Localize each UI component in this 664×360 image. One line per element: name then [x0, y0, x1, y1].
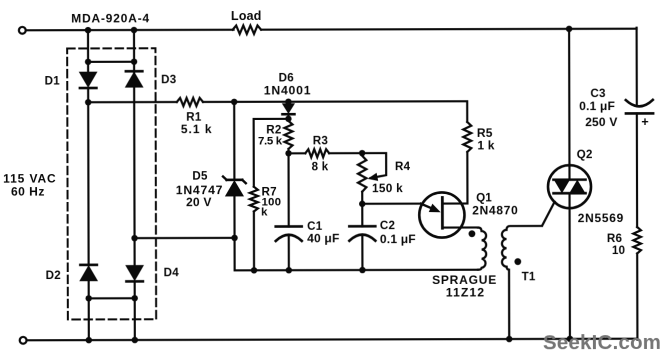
wire (D5 node to D6 node) — [234, 101, 288, 103]
svg-text:Q2: Q2 — [577, 148, 593, 161]
node (AC bus top right) — [131, 59, 137, 65]
label 115 VAC 60 Hz — [3, 172, 57, 199]
svg-text:11Z12: 11Z12 — [446, 285, 485, 299]
wire (Q1 base1 to T1 primary) — [442, 226, 477, 228]
node (AC bus bottom right) — [132, 295, 138, 301]
resistor R6 — [607, 227, 641, 257]
wire (emitter wire: R4 node to Q1) — [362, 203, 421, 205]
svg-text:0.1 μF: 0.1 μF — [380, 232, 416, 246]
wire (top rail corner down to C3) — [636, 28, 638, 105]
svg-text:150 k: 150 k — [372, 181, 403, 195]
svg-text:Load: Load — [231, 9, 262, 23]
capacitor C1 — [276, 220, 340, 246]
svg-text:0.1 μF: 0.1 μF — [579, 99, 615, 113]
svg-text:R3: R3 — [313, 135, 329, 148]
watermark SeekIC.com — [543, 331, 661, 354]
svg-text:D2: D2 — [46, 269, 61, 282]
resistor R1 — [177, 98, 213, 136]
wire (R7 bottom to lower rail) — [253, 212, 255, 271]
node (D5 / DC- junction) — [231, 235, 237, 241]
node (C2 / lower rail) — [359, 267, 365, 273]
svg-text:D3: D3 — [161, 73, 177, 86]
svg-text:250 V: 250 V — [585, 115, 617, 129]
label MDA-920A-4 — [71, 11, 150, 25]
resistor R7 — [250, 186, 281, 219]
svg-text:C3: C3 — [590, 87, 606, 100]
svg-text:2N5569: 2N5569 — [578, 211, 624, 225]
wire (D2 anode to bottom rail) — [88, 280, 90, 340]
node (bottom rail / bridge col 2) — [132, 337, 138, 343]
node (top rail / bridge col 1) — [85, 27, 91, 33]
wire (top rail left segment) — [26, 29, 234, 32]
wire (top rail right segment) — [261, 28, 636, 31]
svg-text:115 VAC: 115 VAC — [3, 172, 56, 186]
terminal (AC line, bottom left) — [20, 337, 27, 344]
svg-text:60 Hz: 60 Hz — [11, 185, 45, 199]
node (DC+ junction at bridge) — [85, 99, 91, 105]
svg-text:1N4001: 1N4001 — [264, 83, 312, 97]
wire (D6 cathode stub) — [287, 115, 289, 119]
wire (emitter node down to C2) — [361, 204, 363, 226]
wire (DC+ rail: bridge to R1) — [88, 101, 177, 103]
node (R7 / lower rail) — [251, 267, 257, 273]
node (DC- junction at bridge) — [131, 235, 137, 241]
wire (DC+ node down to D5) — [233, 102, 235, 180]
triac Q2 (2N5569) — [548, 148, 624, 339]
diode D6 — [264, 71, 312, 114]
potentiometer R4 (rheostat) — [358, 153, 411, 195]
wire (junction down to C1) — [287, 153, 289, 226]
wire (R3 to R4 node) — [329, 152, 362, 154]
node (AC bus top left) — [85, 59, 91, 65]
svg-text:k: k — [261, 206, 268, 218]
wire (C3 to R6) — [636, 113, 638, 227]
wire (bridge column 1: DC+ to D2) — [87, 102, 90, 265]
svg-text:R4: R4 — [395, 160, 411, 173]
wire (top rail down to Q2) — [568, 29, 571, 166]
transformer T1 primary winding — [478, 227, 486, 269]
wire (R5 to Q1 base2) — [442, 152, 467, 204]
wire (R4 bottom stub) — [361, 192, 363, 204]
wire (Q2 gate lead) — [542, 202, 554, 226]
zener diode D5 — [176, 170, 246, 209]
wire (DC- rail: bridge to D5) — [135, 237, 235, 239]
svg-text:C2: C2 — [380, 219, 395, 232]
svg-text:MDA-920A-4: MDA-920A-4 — [71, 11, 150, 25]
svg-text:2N4870: 2N4870 — [472, 203, 518, 217]
svg-text:T1: T1 — [522, 270, 536, 283]
node (R4 / C2 / emitter junction) — [359, 201, 365, 207]
wire (C2 to lower rail) — [361, 236, 363, 270]
svg-text:8 k: 8 k — [312, 161, 329, 174]
resistor Load — [231, 9, 262, 34]
resistor R5 — [463, 122, 495, 152]
terminal (AC line, top left) — [19, 27, 26, 34]
node (D6 cathode / R2 / R7 junction) — [285, 116, 291, 122]
svg-text:D1: D1 — [45, 74, 61, 87]
wire (D1 cathode to DC+ node) — [87, 89, 89, 102]
wire (R2 bottom stub) — [287, 149, 289, 153]
wire (R6 to bottom rail corner) — [636, 254, 638, 340]
wire (D5 node down to lower rail) — [235, 237, 478, 270]
wire (C1 to lower rail) — [288, 236, 290, 270]
wire (R1 to D5 node) — [203, 101, 234, 103]
svg-text:+: + — [641, 115, 649, 129]
wire (junction to R7 top) — [254, 119, 289, 187]
wire (bridge AC bus bottom) — [89, 297, 135, 299]
node (R3 / R4 top junction) — [359, 150, 365, 156]
wire (bridge column 2: D3 to D4, crosses DC+ wire) — [133, 87, 136, 266]
resistor R3 — [305, 135, 329, 174]
phasing dot (T1 secondary) — [514, 258, 521, 265]
node (AC bus bottom left) — [86, 295, 92, 301]
svg-text:D4: D4 — [164, 266, 180, 279]
node (bottom rail / bridge col 1) — [86, 337, 92, 343]
diode D1 — [45, 72, 97, 88]
wire (bridge AC bus top) — [88, 61, 134, 63]
node (DC+ / D6 anode junction) — [285, 99, 291, 105]
transistor Q1 (2N4870 UJT) — [419, 191, 518, 237]
node (Q2 / bottom rail) — [567, 336, 573, 342]
wire (bridge column 2: top rail to D3) — [133, 30, 135, 73]
node (T1 secondary / bottom rail) — [506, 336, 512, 342]
node (R2 / R3 / C1 junction) — [285, 150, 291, 156]
transformer T1 secondary winding and gate lead — [502, 226, 542, 339]
capacitor C3 — [579, 87, 653, 129]
diode D4 — [126, 266, 179, 282]
wire (DC+ rail to R5 corner) — [288, 101, 467, 122]
node (C1 / lower rail) — [286, 267, 292, 273]
svg-text:20 V: 20 V — [186, 195, 212, 209]
label SPRAGUE 11Z12 — [432, 273, 497, 300]
wire (D4 cathode to bottom rail) — [134, 282, 136, 340]
svg-text:5.1 k: 5.1 k — [181, 122, 213, 136]
capacitor C2 — [349, 219, 416, 246]
node (R1 / D5 junction) — [231, 99, 237, 105]
wire (bottom rail) — [27, 339, 638, 341]
svg-text:40 μF: 40 μF — [307, 231, 339, 245]
wire (bridge column 1: top rail to D1) — [87, 30, 89, 72]
svg-text:7.5 k: 7.5 k — [258, 135, 283, 147]
diode D2 — [46, 265, 98, 282]
svg-text:10: 10 — [612, 244, 625, 257]
wire (D5 anode to DC- node) — [233, 196, 235, 238]
label T1 — [522, 270, 536, 283]
node (top rail / bridge col 2) — [131, 27, 137, 33]
svg-text:SeekIC.com: SeekIC.com — [543, 331, 661, 354]
svg-text:1 k: 1 k — [477, 138, 494, 152]
diode D3 — [126, 71, 177, 87]
wire (junction to R3) — [289, 152, 306, 154]
node (top rail / Q2 branch) — [566, 26, 572, 32]
resistor R2 — [258, 121, 293, 149]
svg-text:D5: D5 — [192, 170, 208, 183]
phasing dot (T1 primary) — [469, 230, 476, 237]
bridge rectifier package MDA-920A-4 (dashed outline) — [67, 48, 156, 319]
